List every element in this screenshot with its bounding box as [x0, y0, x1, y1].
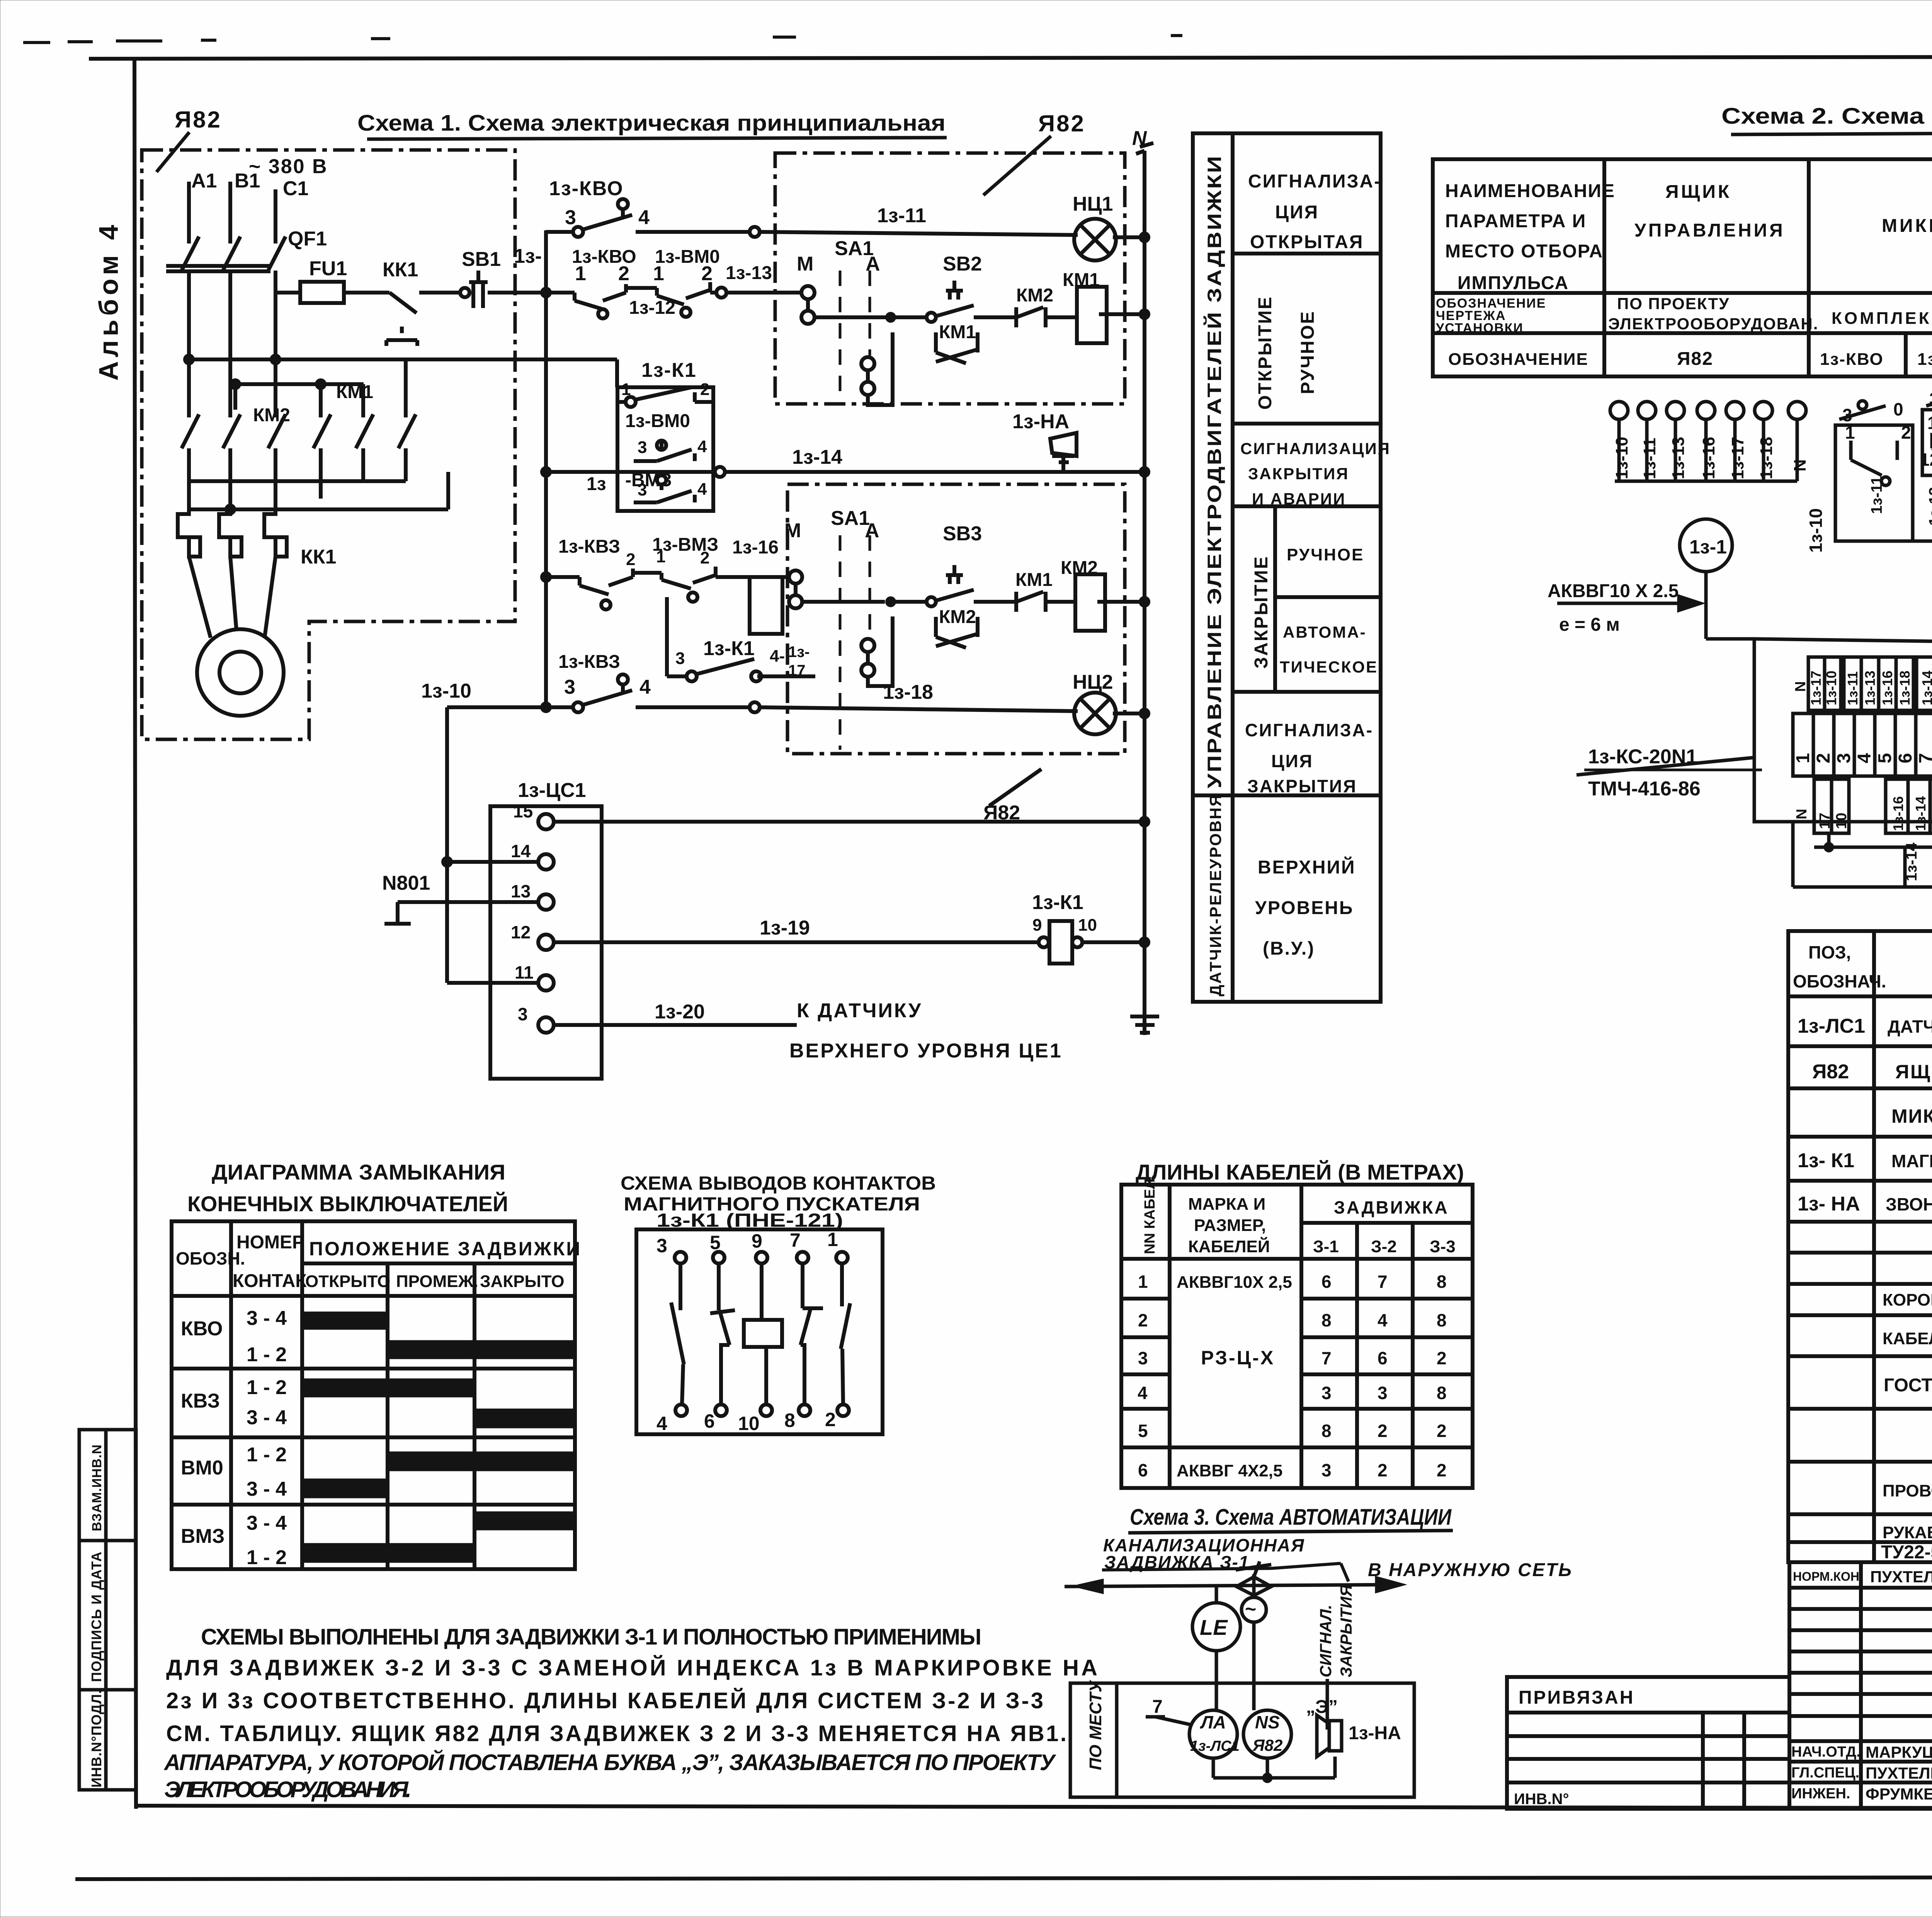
svg-text:2: 2: [1138, 1310, 1148, 1330]
svg-text:РУЧНОЕ: РУЧНОЕ: [1287, 545, 1364, 564]
svg-text:Я82: Я82: [1252, 1736, 1282, 1754]
svg-text:3: 3: [638, 480, 647, 499]
svg-text:1з-ЛС1: 1з-ЛС1: [1798, 1015, 1865, 1037]
svg-text:1з- К1: 1з- К1: [1798, 1149, 1854, 1172]
svg-text:ОБОЗН.: ОБОЗН.: [176, 1248, 245, 1268]
svg-text:ЭЛЕКТРООБОРУДОВАНИЯ.: ЭЛЕКТРООБОРУДОВАНИЯ.: [164, 1777, 412, 1802]
svg-text:ТМЧ-416-86: ТМЧ-416-86: [1588, 778, 1701, 800]
svg-text:СИГНАЛИЗА-: СИГНАЛИЗА-: [1245, 720, 1373, 740]
svg-text:ЯЩИК: ЯЩИК: [1665, 182, 1731, 202]
svg-text:1з-17: 1з-17: [1728, 437, 1747, 479]
svg-text:6: 6: [1138, 1460, 1148, 1480]
svg-text:3: 3: [675, 649, 685, 668]
svg-text:Я82: Я82: [1677, 349, 1713, 369]
svg-text:СХЕМА ВЫВОДОВ КОНТАКТОВ: СХЕМА ВЫВОДОВ КОНТАКТОВ: [621, 1173, 936, 1194]
svg-text:СИГНАЛ.: СИГНАЛ.: [1316, 1605, 1335, 1677]
svg-text:МЕСТО ОТБОРА: МЕСТО ОТБОРА: [1445, 241, 1603, 262]
svg-text:Схема 1. Схема электрическая: Схема 1. Схема электрическая принципиаль…: [357, 111, 946, 136]
svg-text:КК1: КК1: [383, 259, 418, 281]
svg-text:1з-14: 1з-14: [1919, 671, 1932, 705]
svg-text:1з-КВЗ: 1з-КВЗ: [558, 652, 620, 672]
svg-text:СИГНАЛИЗА-: СИГНАЛИЗА-: [1248, 171, 1381, 192]
svg-text:ДАТЧИК-РЕЛЕ УРОВНЯ РОС-301: ДАТЧИК-РЕЛЕ УРОВНЯ РОС-301 ~ 220 В: [1888, 1016, 1932, 1037]
svg-text:ДАТЧИК-РЕЛЕУРОВНЯ: ДАТЧИК-РЕЛЕУРОВНЯ: [1206, 793, 1225, 996]
svg-text:1: 1: [1845, 422, 1855, 443]
svg-text:КАБЕЛЕЙ: КАБЕЛЕЙ: [1188, 1236, 1270, 1256]
svg-text:4: 4: [1854, 753, 1875, 763]
svg-text:ПАРАМЕТРА И: ПАРАМЕТРА И: [1445, 211, 1586, 232]
svg-text:ОБОЗНАЧЕНИЕ: ОБОЗНАЧЕНИЕ: [1448, 350, 1588, 369]
svg-text:1з-16: 1з-16: [1879, 671, 1895, 705]
svg-text:3: 3: [518, 1004, 528, 1024]
svg-text:ТУ22-5570-83: ТУ22-5570-83: [1881, 1542, 1932, 1563]
svg-text:1з-13: 1з-13: [726, 263, 772, 283]
svg-text:НЦ1: НЦ1: [1073, 193, 1113, 215]
svg-text:1з-10: 1з-10: [1823, 671, 1839, 705]
svg-text:ВЕРХНИЙ: ВЕРХНИЙ: [1258, 856, 1356, 878]
svg-text:4: 4: [638, 206, 650, 229]
svg-text:КМ2: КМ2: [1016, 285, 1053, 306]
svg-text:КМ1: КМ1: [939, 322, 976, 342]
svg-text:1з-1: 1з-1: [1689, 536, 1727, 558]
svg-text:1з-14: 1з-14: [792, 446, 842, 468]
svg-text:1 - 2: 1 - 2: [247, 1343, 287, 1366]
svg-text:ОТКРЫТО: ОТКРЫТО: [305, 1272, 390, 1291]
svg-text:АКВВГ10Х 2,5: АКВВГ10Х 2,5: [1177, 1273, 1292, 1292]
svg-text:Я82: Я82: [1038, 111, 1085, 136]
svg-text:ПУХТЕЛЬ: ПУХТЕЛЬ: [1870, 1568, 1932, 1586]
svg-text:3 - 4: 3 - 4: [247, 1406, 287, 1429]
svg-text:З-1: З-1: [1313, 1237, 1339, 1256]
svg-text:1з-11: 1з-11: [1845, 671, 1861, 705]
svg-text:ПОДПИСЬ И ДАТА: ПОДПИСЬ И ДАТА: [88, 1551, 104, 1682]
svg-text:1з-20: 1з-20: [655, 1001, 705, 1023]
svg-text:1з- НА: 1з- НА: [1798, 1193, 1860, 1215]
svg-text:МАРКУЦКИЙ: МАРКУЦКИЙ: [1866, 1743, 1932, 1761]
svg-text:2: 2: [701, 262, 713, 285]
svg-text:М: М: [797, 253, 813, 275]
svg-text:2: 2: [1437, 1421, 1447, 1441]
svg-text:1: 1: [575, 262, 586, 285]
svg-text:1: 1: [656, 547, 665, 566]
svg-text:АКВВГ 4Х2,5: АКВВГ 4Х2,5: [1177, 1461, 1282, 1480]
svg-text:8: 8: [1437, 1310, 1447, 1330]
svg-text:SB1: SB1: [462, 248, 501, 271]
svg-text:1: 1: [621, 380, 631, 399]
svg-text:1: 1: [1927, 413, 1932, 433]
svg-text:10: 10: [738, 1413, 760, 1434]
svg-text:12: 12: [1920, 449, 1932, 470]
svg-text:ГЛ.СПЕЦ.: ГЛ.СПЕЦ.: [1791, 1765, 1859, 1781]
svg-text:3: 3: [638, 438, 647, 457]
svg-text:ЗАКРЫТИЕ: ЗАКРЫТИЕ: [1251, 555, 1272, 669]
svg-text:З-2: З-2: [1371, 1237, 1397, 1256]
svg-text:SA1: SA1: [831, 507, 870, 529]
svg-text:N: N: [1793, 681, 1809, 692]
svg-text:ИНВ.N°: ИНВ.N°: [1514, 1791, 1569, 1808]
svg-text:ИНЖЕН.: ИНЖЕН.: [1791, 1786, 1850, 1802]
svg-text:АВТОМА-: АВТОМА-: [1283, 623, 1367, 641]
svg-text:ЗАКРЫТО: ЗАКРЫТО: [480, 1272, 565, 1291]
svg-text:7: 7: [1152, 1697, 1163, 1717]
svg-text:11: 11: [515, 962, 534, 982]
svg-text:З-3: З-3: [1430, 1237, 1456, 1256]
svg-text:А: А: [865, 519, 879, 542]
svg-text:КВЗ: КВЗ: [181, 1390, 220, 1412]
svg-text:УРОВЕНЬ: УРОВЕНЬ: [1255, 898, 1354, 918]
svg-text:1з-ВМ0: 1з-ВМ0: [625, 411, 690, 431]
svg-text:1з-10: 1з-10: [421, 680, 471, 702]
svg-text:1з-12: 1з-12: [629, 298, 675, 318]
svg-text:SB3: SB3: [943, 523, 982, 545]
svg-text:ДЛИНЫ КАБЕЛЕЙ (В МЕТРАХ): ДЛИНЫ КАБЕЛЕЙ (В МЕТРАХ): [1136, 1160, 1464, 1184]
svg-text:НОМЕР: НОМЕР: [236, 1232, 304, 1253]
svg-text:1з-19: 1з-19: [760, 917, 810, 939]
svg-text:1з-КС-20N1: 1з-КС-20N1: [1588, 746, 1697, 768]
svg-text:ЦИЯ: ЦИЯ: [1275, 202, 1319, 223]
svg-text:1з-НА: 1з-НА: [1012, 410, 1069, 433]
svg-text:9: 9: [752, 1230, 762, 1252]
svg-text:КК1: КК1: [301, 546, 336, 568]
svg-text:1: 1: [1793, 753, 1813, 763]
svg-text:8: 8: [1321, 1421, 1332, 1441]
svg-text:НАИМЕНОВАНИЕ: НАИМЕНОВАНИЕ: [1445, 181, 1615, 201]
svg-text:ПО ПРОЕКТУ: ПО ПРОЕКТУ: [1617, 295, 1730, 313]
svg-text:ПУХТЕЛЬ: ПУХТЕЛЬ: [1866, 1764, 1932, 1782]
svg-text:4: 4: [1138, 1383, 1148, 1403]
svg-text:1з-11: 1з-11: [877, 204, 926, 227]
svg-text:NS: NS: [1255, 1712, 1280, 1732]
svg-text:РУКАВ ГИБКИЙ МЕТАЛЛИЧЕСКИЙ РЗ: РУКАВ ГИБКИЙ МЕТАЛЛИЧЕСКИЙ РЗ-Ц-Х-15У1: [1883, 1522, 1932, 1542]
svg-text:5: 5: [1875, 753, 1895, 763]
svg-text:17: 17: [1817, 813, 1833, 829]
svg-text:е = 6 м: е = 6 м: [1559, 615, 1620, 635]
svg-text:РЗ-Ц-Х: РЗ-Ц-Х: [1201, 1347, 1275, 1369]
svg-text:ЗАКРЫТИЯ: ЗАКРЫТИЯ: [1247, 776, 1357, 796]
svg-text:ВМЗ: ВМЗ: [181, 1525, 224, 1548]
svg-text:7: 7: [1916, 753, 1932, 763]
svg-text:МАГНИТНЫЙ ПУСКАТЕЛЬ ПМЕ-121: МАГНИТНЫЙ ПУСКАТЕЛЬ ПМЕ-121 ~220В: [1891, 1151, 1932, 1171]
svg-text:-ВМЗ: -ВМЗ: [625, 470, 672, 490]
svg-text:ПРИВЯЗАН: ПРИВЯЗАН: [1519, 1687, 1634, 1708]
svg-text:10: 10: [1078, 916, 1097, 935]
svg-text:4-: 4-: [770, 647, 785, 666]
svg-text:3: 3: [1321, 1383, 1332, 1403]
svg-text:6: 6: [1321, 1272, 1332, 1292]
svg-text:2: 2: [1378, 1421, 1388, 1441]
svg-text:М: М: [784, 519, 801, 542]
svg-text:ОБОЗНАЧ.: ОБОЗНАЧ.: [1793, 971, 1886, 991]
svg-text:1з-17: 1з-17: [1808, 671, 1824, 705]
svg-text:2: 2: [626, 550, 635, 569]
svg-text:СИГНАЛИЗАЦИЯ: СИГНАЛИЗАЦИЯ: [1240, 439, 1391, 458]
svg-text:1з-16: 1з-16: [1699, 437, 1718, 479]
svg-text:ЗАДВИЖКА: ЗАДВИЖКА: [1334, 1197, 1449, 1217]
svg-text:1з-ЦС1: 1з-ЦС1: [518, 779, 586, 802]
svg-text:КОНЕЧНЫХ ВЫКЛЮЧАТЕЛЕЙ: КОНЕЧНЫХ ВЫКЛЮЧАТЕЛЕЙ: [187, 1192, 508, 1216]
svg-text:КВО: КВО: [181, 1318, 223, 1340]
svg-text:NN КАБЕЛ.: NN КАБЕЛ.: [1142, 1175, 1158, 1254]
svg-text:КМ2: КМ2: [939, 607, 976, 627]
svg-text:Я82: Я82: [983, 802, 1020, 824]
svg-text:ЯЩИК УПРАВЛЕНИЯ: ЯЩИК УПРАВЛЕНИЯ: [1895, 1061, 1932, 1083]
svg-text:1з-К1: 1з-К1: [641, 359, 697, 381]
svg-text:И АВАРИИ: И АВАРИИ: [1252, 490, 1346, 508]
svg-text:РАЗМЕР,: РАЗМЕР,: [1194, 1216, 1266, 1235]
svg-text:ЗВОНОК ЭЛЕКТРИЧЕСКИЙ ЗВП-220: ЗВОНОК ЭЛЕКТРИЧЕСКИЙ ЗВП-220 ~220В: [1886, 1194, 1932, 1214]
svg-text:1з-: 1з-: [788, 644, 810, 661]
svg-text:SB2: SB2: [943, 253, 982, 275]
svg-text:13: 13: [511, 881, 531, 901]
svg-text:1з-18: 1з-18: [883, 681, 933, 703]
svg-text:КМ2: КМ2: [1061, 558, 1098, 578]
svg-text:3: 3: [1929, 389, 1932, 409]
svg-text:~: ~: [1245, 1598, 1256, 1620]
svg-text:ФРУМКЕР: ФРУМКЕР: [1866, 1785, 1932, 1803]
svg-text:3: 3: [1138, 1348, 1148, 1368]
svg-text:АКВВГ10 Х 2.5: АКВВГ10 Х 2.5: [1548, 581, 1679, 601]
svg-text:1з-КВО: 1з-КВО: [1820, 350, 1884, 369]
svg-text:Схема 2. Схема внешних элект: Схема 2. Схема внешних электрических про…: [1721, 104, 1932, 129]
svg-text:ДИАГРАММА ЗАМЫКАНИЯ: ДИАГРАММА ЗАМЫКАНИЯ: [212, 1160, 505, 1184]
svg-text:12: 12: [511, 922, 531, 942]
svg-text:ГОСТ 1508-78* Е: ГОСТ 1508-78* Е: [1884, 1375, 1932, 1396]
svg-text:N801: N801: [382, 872, 430, 894]
svg-text:1з-НА: 1з-НА: [1349, 1723, 1401, 1743]
svg-text:2: 2: [1813, 753, 1834, 763]
svg-text:7: 7: [1378, 1272, 1388, 1292]
svg-text:„Э”: „Э”: [1306, 1697, 1338, 1717]
svg-text:КМ1: КМ1: [1015, 570, 1053, 590]
svg-text:К ДАТЧИКУ: К ДАТЧИКУ: [797, 999, 922, 1022]
svg-text:2: 2: [1378, 1460, 1388, 1480]
svg-text:8: 8: [1437, 1272, 1447, 1292]
svg-text:2: 2: [1437, 1348, 1447, 1368]
svg-text:3: 3: [1321, 1460, 1332, 1480]
svg-text:ЛА: ЛА: [1200, 1712, 1226, 1732]
svg-text:АППАРАТУРА, У КОТОРОЙ ПОСТАВЛ: АППАРАТУРА, У КОТОРОЙ ПОСТАВЛЕНА БУКВА „…: [163, 1750, 1056, 1775]
svg-text:N: N: [1791, 459, 1810, 472]
svg-text:9: 9: [1032, 916, 1042, 935]
svg-text:6: 6: [1378, 1348, 1388, 1368]
svg-text:1з-13: 1з-13: [1862, 671, 1878, 705]
svg-text:7: 7: [1321, 1348, 1332, 1368]
svg-text:УПРАВЛЕНИЯ: УПРАВЛЕНИЯ: [1634, 220, 1785, 241]
svg-text:ОТКРЫТАЯ: ОТКРЫТАЯ: [1250, 232, 1364, 252]
svg-text:1з-13: 1з-13: [1926, 487, 1932, 526]
svg-text:ЗАКРЫТИЯ: ЗАКРЫТИЯ: [1337, 1584, 1355, 1677]
svg-text:1з-11: 1з-11: [1868, 476, 1885, 514]
svg-text:1: 1: [1138, 1272, 1148, 1292]
svg-text:2: 2: [700, 380, 709, 399]
svg-text:1з-16: 1з-16: [1890, 796, 1906, 831]
svg-text:ИНВ.N°ПОДЛ.: ИНВ.N°ПОДЛ.: [88, 1689, 104, 1788]
svg-text:8: 8: [784, 1410, 795, 1431]
svg-text:1з-16: 1з-16: [732, 537, 779, 558]
svg-text:ТИЧЕСКОЕ: ТИЧЕСКОЕ: [1280, 658, 1378, 676]
svg-text:7: 7: [790, 1229, 801, 1251]
svg-text:2: 2: [1901, 422, 1911, 443]
svg-text:КМ2: КМ2: [253, 405, 290, 426]
svg-text:СМ. ТАБЛИЦУ. ЯЩИК Я82 ДЛЯ: СМ. ТАБЛИЦУ. ЯЩИК Я82 ДЛЯ ЗАДВИЖЕК З 2 И…: [166, 1721, 1066, 1746]
svg-text:4: 4: [656, 1413, 667, 1434]
svg-text:1: 1: [653, 262, 664, 285]
svg-text:ИМПУЛЬСА: ИМПУЛЬСА: [1458, 273, 1569, 293]
svg-text:1з-18: 1з-18: [1757, 437, 1776, 479]
svg-text:МИКРОВЫКЛЮЧАТЕЛИ: МИКРОВЫКЛЮЧАТЕЛИ: [1882, 216, 1932, 236]
svg-text:НАЧ.ОТД.: НАЧ.ОТД.: [1791, 1744, 1861, 1760]
svg-text:4: 4: [697, 480, 707, 499]
svg-text:1з-КВО: 1з-КВО: [549, 177, 624, 200]
svg-text:2з И 3з СООТВЕТСТВЕННО. ДЛИН: 2з И 3з СООТВЕТСТВЕННО. ДЛИНЫ КАБЕЛЕЙ ДЛ…: [166, 1688, 1043, 1713]
svg-text:1з-К1: 1з-К1: [703, 637, 755, 660]
svg-text:1з-14: 1з-14: [1903, 842, 1920, 881]
svg-text:ПРОМЕЖ.: ПРОМЕЖ.: [396, 1272, 478, 1291]
svg-text:ПОЗ,: ПОЗ,: [1808, 942, 1851, 962]
svg-text:1з: 1з: [587, 474, 606, 494]
svg-text:А1: А1: [191, 170, 217, 192]
svg-text:ОТКРЫТИЕ: ОТКРЫТИЕ: [1255, 296, 1276, 410]
svg-text:5: 5: [1138, 1421, 1148, 1441]
svg-text:Альбом 4: Альбом 4: [94, 221, 124, 381]
svg-text:КОНТАК: КОНТАК: [233, 1271, 307, 1291]
svg-text:В НАРУЖНУЮ СЕТЬ: В НАРУЖНУЮ СЕТЬ: [1368, 1560, 1573, 1580]
svg-text:3 - 4: 3 - 4: [247, 1512, 287, 1534]
svg-text:1з-10: 1з-10: [1612, 437, 1631, 479]
svg-text:4: 4: [697, 437, 707, 456]
svg-text:1з-ВМО: 1з-ВМО: [1917, 350, 1932, 369]
svg-text:2: 2: [1437, 1460, 1447, 1480]
svg-text:1з-КВЗ: 1з-КВЗ: [558, 536, 620, 557]
svg-text:1 - 2: 1 - 2: [247, 1546, 287, 1569]
svg-text:6: 6: [704, 1410, 715, 1432]
svg-text:3: 3: [656, 1235, 667, 1256]
svg-text:1 - 2: 1 - 2: [247, 1444, 287, 1466]
svg-text:КОМПЛЕКТНО С ЗАДВИЖКОЙ: КОМПЛЕКТНО С ЗАДВИЖКОЙ: [1832, 308, 1932, 328]
svg-text:СХЕМЫ ВЫПОЛНЕНЫ ДЛЯ ЗАДВИЖК: СХЕМЫ ВЫПОЛНЕНЫ ДЛЯ ЗАДВИЖКИ З-1 И ПОЛНО…: [201, 1624, 981, 1650]
svg-text:РУЧНОЕ: РУЧНОЕ: [1298, 310, 1318, 394]
svg-text:1з-14: 1з-14: [1913, 796, 1929, 831]
svg-text:2: 2: [700, 548, 709, 567]
svg-text:Схема 3. Схема АВТОМАТИЗАЦИИ: Схема 3. Схема АВТОМАТИЗАЦИИ: [1130, 1505, 1452, 1530]
svg-text:КМ1: КМ1: [336, 382, 373, 402]
svg-text:8: 8: [1437, 1383, 1447, 1403]
svg-text:ЗАКРЫТИЯ: ЗАКРЫТИЯ: [1248, 465, 1349, 483]
svg-text:ВЕРХНЕГО УРОВНЯ ЦЕ1: ВЕРХНЕГО УРОВНЯ ЦЕ1: [789, 1040, 1063, 1062]
svg-text:ПО МЕСТУ: ПО МЕСТУ: [1086, 1680, 1105, 1770]
svg-text:3: 3: [1834, 753, 1854, 763]
svg-text:1з-10: 1з-10: [1806, 508, 1826, 553]
svg-text:В1: В1: [235, 170, 260, 192]
svg-text:МАРКА И: МАРКА И: [1188, 1195, 1265, 1214]
svg-text:С1: С1: [283, 177, 308, 200]
svg-text:ЭЛЕКТРООБОРУДОВАН.: ЭЛЕКТРООБОРУДОВАН.: [1608, 315, 1818, 333]
svg-text:QF1: QF1: [288, 228, 327, 250]
svg-text:~ 380 В: ~ 380 В: [249, 155, 328, 178]
svg-text:FU1: FU1: [309, 257, 347, 280]
svg-text:ЦИЯ: ЦИЯ: [1271, 751, 1313, 771]
svg-text:А: А: [866, 253, 880, 275]
svg-text:4: 4: [1378, 1310, 1388, 1330]
svg-text:1з-К1: 1з-К1: [1032, 891, 1083, 914]
svg-text:17: 17: [788, 662, 806, 679]
svg-text:КМ1: КМ1: [1063, 270, 1100, 290]
svg-text:1з-18: 1з-18: [1897, 671, 1913, 705]
svg-text:НЦ2: НЦ2: [1073, 671, 1113, 693]
svg-text:N: N: [1132, 127, 1147, 150]
svg-text:10: 10: [1833, 813, 1850, 829]
svg-text:15: 15: [513, 801, 533, 821]
svg-text:Я82: Я82: [1812, 1061, 1849, 1083]
svg-text:ВЗАМ.ИНВ.N: ВЗАМ.ИНВ.N: [90, 1444, 104, 1531]
svg-text:3: 3: [565, 206, 576, 229]
svg-text:LE: LE: [1200, 1615, 1228, 1639]
svg-text:Я82: Я82: [175, 107, 222, 133]
svg-text:2: 2: [825, 1409, 836, 1430]
svg-text:ДЛЯ ЗАДВИЖЕК З-2 И З-3 С ЗАМ: ДЛЯ ЗАДВИЖЕК З-2 И З-3 С ЗАМЕНОЙ ИНДЕКСА…: [166, 1655, 1097, 1680]
svg-text:3 - 4: 3 - 4: [247, 1307, 287, 1330]
svg-text:3: 3: [1378, 1383, 1388, 1403]
svg-text:МИКРОВЫКЛЮЧАТЕЛИ: МИКРОВЫКЛЮЧАТЕЛИ: [1891, 1105, 1932, 1127]
svg-text:N: N: [1794, 809, 1810, 819]
svg-text:1з-13: 1з-13: [1669, 437, 1688, 479]
svg-text:(В.У.): (В.У.): [1263, 938, 1315, 959]
svg-text:4: 4: [639, 676, 651, 698]
svg-text:5: 5: [710, 1232, 721, 1253]
svg-text:6: 6: [1895, 753, 1916, 763]
svg-text:3 - 4: 3 - 4: [247, 1478, 287, 1500]
svg-text:1з-11: 1з-11: [1640, 438, 1659, 479]
svg-text:1з-: 1з-: [514, 245, 542, 267]
svg-text:14: 14: [511, 841, 531, 861]
svg-text:1: 1: [827, 1229, 838, 1250]
svg-text:КОРОБКА СОЕДИНИТЕЛЬНАЯ ТУ36,25: КОРОБКА СОЕДИНИТЕЛЬНАЯ ТУ36,2568-83Е КС-…: [1883, 1290, 1932, 1309]
svg-text:ВМ0: ВМ0: [181, 1457, 223, 1479]
svg-text:1 - 2: 1 - 2: [247, 1376, 287, 1399]
svg-text:НОРМ.КОН: НОРМ.КОН: [1793, 1570, 1859, 1583]
svg-text:КАБЕЛЬ КОНТРОЛЬНЫЙ С АЛЮМИНИЕВ: КАБЕЛЬ КОНТРОЛЬНЫЙ С АЛЮМИНИЕВЫМИ ЖИЛАМИ: [1883, 1328, 1932, 1348]
svg-text:УПРАВЛЕНИЕ ЭЛЕКТРОДВИГАТЕЛЕЙ: УПРАВЛЕНИЕ ЭЛЕКТРОДВИГАТЕЛЕЙ ЗАДВИЖКИ: [1203, 155, 1225, 788]
svg-text:3: 3: [564, 676, 575, 698]
svg-text:2: 2: [618, 262, 629, 285]
svg-text:0: 0: [1893, 399, 1903, 419]
svg-text:ПОЛОЖЕНИЕ ЗАДВИЖКИ: ПОЛОЖЕНИЕ ЗАДВИЖКИ: [309, 1238, 582, 1260]
svg-text:УСТАНОВКИ: УСТАНОВКИ: [1436, 321, 1524, 335]
svg-text:ПРОВОД С МЕДНОЙ ЖИЛОЙ ГОСТ632: ПРОВОД С МЕДНОЙ ЖИЛОЙ ГОСТ6323-79 ПВ1 1Х…: [1883, 1481, 1932, 1500]
svg-text:1з-ЛС1: 1з-ЛС1: [1190, 1738, 1240, 1754]
svg-text:8: 8: [1321, 1310, 1332, 1330]
